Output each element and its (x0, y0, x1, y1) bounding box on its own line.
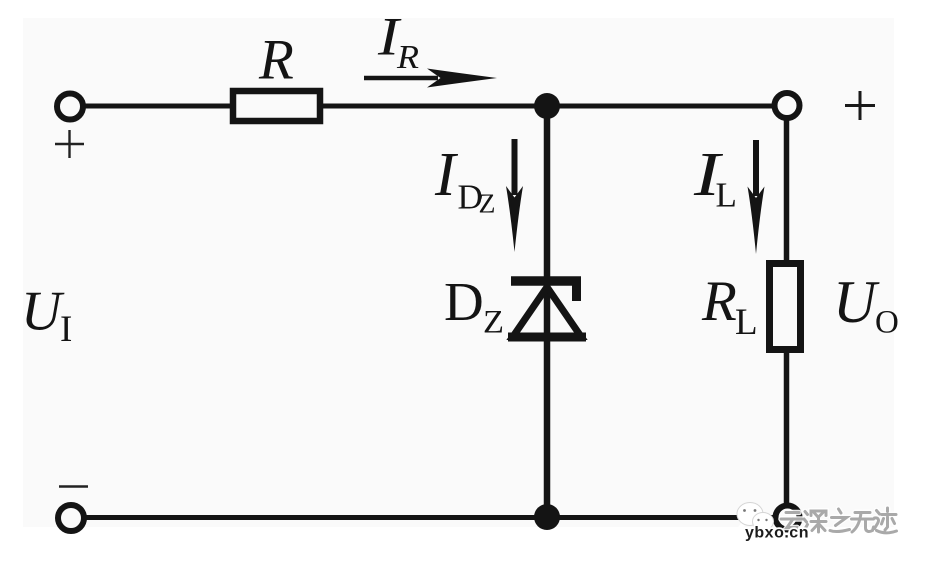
svg-text:I: I (60, 309, 72, 350)
svg-text:R: R (701, 270, 737, 333)
svg-text:Z: Z (479, 189, 496, 219)
svg-text:D: D (444, 271, 484, 332)
svg-text:L: L (716, 176, 737, 215)
svg-text:I: I (434, 141, 459, 209)
svg-text:R: R (258, 29, 294, 92)
svg-text:U: U (21, 281, 65, 343)
svg-text:O: O (875, 305, 899, 341)
svg-text:L: L (735, 302, 758, 343)
svg-text:ybxo.cn: ybxo.cn (745, 525, 809, 542)
svg-text:Z: Z (483, 305, 504, 341)
svg-text:U: U (833, 269, 880, 335)
svg-text:R: R (396, 39, 419, 76)
